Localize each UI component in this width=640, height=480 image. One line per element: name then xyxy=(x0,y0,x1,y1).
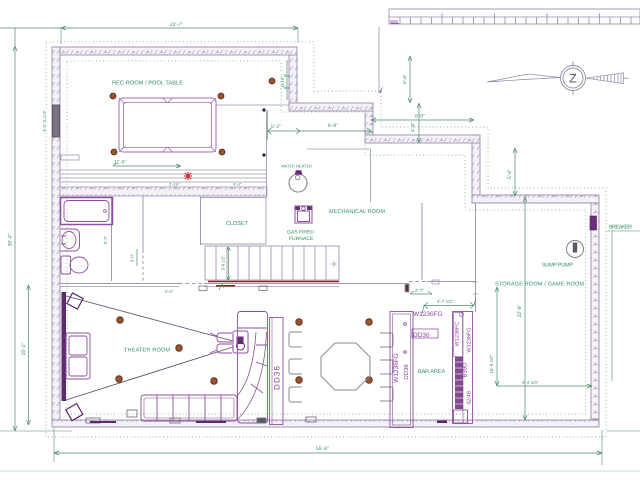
bar counter west xyxy=(390,312,413,428)
projection cone line upper xyxy=(66,296,233,341)
outlet box under stairs 2 xyxy=(259,286,267,291)
svg-text:W1236FG: W1236FG xyxy=(467,327,473,352)
svg-text:15'-2": 15'-2" xyxy=(21,342,27,355)
scale bar left label ticks xyxy=(391,20,400,24)
wall continues xyxy=(204,283,409,285)
svg-text:5'-2": 5'-2" xyxy=(271,124,281,130)
sump pump xyxy=(567,241,584,258)
bar hatch lines xyxy=(455,362,463,404)
bar stools right column xyxy=(380,333,393,401)
dim 3'-0" bath xyxy=(136,249,138,266)
svg-text:36'-0": 36'-0" xyxy=(8,233,14,246)
hall door dashed xyxy=(142,250,144,281)
gas fired furnace xyxy=(295,206,312,223)
dim 6'-6" vertical at step1 xyxy=(409,56,411,103)
svg-text:Tele: Tele xyxy=(283,74,290,78)
support post rec3 xyxy=(111,149,117,155)
dim 4'-6" vertical at step2 xyxy=(418,103,420,143)
svg-text:FURNACE: FURNACE xyxy=(289,236,314,242)
svg-text:6'-8": 6'-8" xyxy=(328,123,338,129)
svg-text:Z: Z xyxy=(569,72,577,86)
support post near rec right wall xyxy=(269,78,275,84)
svg-text:55'-8": 55'-8" xyxy=(316,446,329,452)
speaker bottom-left xyxy=(66,404,83,421)
wall stub at bar top xyxy=(432,280,439,284)
wall: left exterior xyxy=(52,47,60,427)
dim line top 22'-7" xyxy=(0,27,298,29)
wall to storage xyxy=(427,281,475,283)
octagon poker table xyxy=(321,343,370,390)
svg-text:4'-6": 4'-6" xyxy=(411,122,417,132)
stair plus mark xyxy=(331,261,337,267)
svg-text:MECHANICAL ROOM: MECHANICAL ROOM xyxy=(329,209,385,215)
storage wall stub below door xyxy=(475,294,477,312)
dim 22'-9" storage xyxy=(524,197,526,420)
baseboard segment dark 3 xyxy=(437,421,447,424)
svg-text:DD36: DD36 xyxy=(403,364,410,380)
bar cabinet labels xyxy=(393,311,473,405)
toilet xyxy=(61,256,88,274)
theater north wall xyxy=(60,283,179,285)
baseboard segment dark 2 xyxy=(196,421,226,423)
tele marks near rec wall xyxy=(283,74,290,90)
closet box xyxy=(201,198,267,245)
step2 inner face extension line xyxy=(307,148,371,150)
interior partitions xyxy=(60,105,478,312)
support post rec1 xyxy=(110,78,275,155)
wall: step2 horizontal xyxy=(365,135,480,143)
svg-text:SUMP PUMP: SUMP PUMP xyxy=(542,263,573,269)
svg-text:5'-0": 5'-0" xyxy=(165,289,174,294)
svg-text:5'-6": 5'-6" xyxy=(507,169,513,179)
svg-text:STORAGE ROOM / GAME ROOM: STORAGE ROOM / GAME ROOM xyxy=(495,282,584,288)
bar dark hatched cabinet band xyxy=(455,357,463,409)
svg-text:4'-7 1/2": 4'-7 1/2" xyxy=(437,299,454,304)
beam band lines under rec room xyxy=(60,169,267,171)
curved sectional couch horizontal run xyxy=(141,395,237,421)
dim 6'-0" horizontal step2 xyxy=(371,119,474,121)
octagon chairs left column xyxy=(289,332,302,402)
theater door dashed xyxy=(179,283,204,285)
footing dotted outline (outer) xyxy=(46,42,606,437)
theater posts xyxy=(116,317,372,384)
svg-text:5'-4 1/4": 5'-4 1/4" xyxy=(522,380,539,385)
mech/storage divider xyxy=(421,203,423,280)
wall: right exterior xyxy=(591,203,599,419)
svg-text:3'-0" X 4'-0": 3'-0" X 4'-0" xyxy=(42,110,47,132)
outlet box under stairs 1 xyxy=(199,286,207,291)
breaker leader lines xyxy=(607,230,640,232)
faint bottom border line xyxy=(0,470,640,472)
svg-text:3'-8 1/2": 3'-8 1/2" xyxy=(221,255,226,271)
scale-bar drop line xyxy=(378,27,380,93)
footing extension line bottom-right xyxy=(607,430,640,432)
svg-text:11'-5": 11'-5" xyxy=(114,160,127,166)
svg-text:42/48: 42/48 xyxy=(467,391,473,405)
hall partition xyxy=(142,196,144,250)
wall: step2-3 connector vertical xyxy=(472,143,480,195)
egress window on left wall xyxy=(53,105,60,137)
storage door jamb xyxy=(473,282,478,294)
stair treads xyxy=(216,246,326,280)
svg-text:WATER HEATER: WATER HEATER xyxy=(281,164,312,169)
vanity sink xyxy=(61,229,80,251)
svg-text:B39D: B39D xyxy=(462,362,469,378)
svg-text:REC ROOM / POOL TABLE: REC ROOM / POOL TABLE xyxy=(112,80,183,87)
dim line bottom 55'-8" xyxy=(54,452,602,454)
pool table to wall line xyxy=(216,104,289,106)
svg-text:W1236FC: W1236FC xyxy=(455,322,461,347)
storage room west wall xyxy=(475,203,477,294)
water heater xyxy=(289,171,307,193)
wall: step1-2 connector vertical xyxy=(365,111,373,135)
sofa against left wall xyxy=(66,333,90,379)
dim line left 36'-0" xyxy=(14,28,16,431)
recliner with projector xyxy=(210,331,248,353)
interior dotted guide (inner) xyxy=(67,61,586,414)
needle west xyxy=(487,74,561,82)
wall: bottom exterior xyxy=(52,420,599,427)
svg-text:W1236FG: W1236FG xyxy=(393,353,400,383)
dim line left 15'-2" xyxy=(28,285,30,425)
svg-text:BREAKER: BREAKER xyxy=(609,225,632,231)
mech/closet partition xyxy=(266,111,268,197)
svg-text:2'-7": 2'-7" xyxy=(415,288,424,293)
svg-text:W1236FG: W1236FG xyxy=(413,311,443,318)
stair nosing red line xyxy=(208,281,339,283)
curved sectional couch corner+vertical run xyxy=(237,312,268,424)
wall: step1 horizontal xyxy=(289,103,373,111)
stair outline xyxy=(205,246,339,280)
wall: rec room right exterior xyxy=(289,55,297,103)
rec right wall dim 16'10" xyxy=(286,60,288,100)
bathtub xyxy=(61,198,113,225)
dimension texts xyxy=(8,22,539,452)
dim 6'-8" xyxy=(300,130,371,132)
svg-text:22'-7": 22'-7" xyxy=(170,22,183,28)
svg-text:CLOSET: CLOSET xyxy=(226,221,249,227)
closet left wall xyxy=(200,196,202,245)
dim 5'-2" xyxy=(268,130,301,132)
svg-text:THEATER ROOM: THEATER ROOM xyxy=(124,348,170,354)
footing extension line bottom-left xyxy=(0,430,72,432)
svg-text:9'-2": 9'-2" xyxy=(103,235,108,244)
support post rec4 xyxy=(219,149,225,155)
dark mark under stairs xyxy=(216,285,235,287)
svg-text:2'-10": 2'-10" xyxy=(169,182,180,187)
svg-text:DD36: DD36 xyxy=(273,365,282,390)
bathroom east wall xyxy=(111,196,113,281)
shelf under window xyxy=(61,155,79,160)
needle east striped xyxy=(586,73,624,84)
baseboard segment dark xyxy=(90,421,116,423)
dim 16'-9 1/2" xyxy=(496,287,498,386)
svg-text:G: G xyxy=(459,312,466,317)
wall band: rec room south wall xyxy=(60,187,267,196)
walls group xyxy=(52,47,599,427)
dark door jamb at bar wall xyxy=(405,284,409,292)
pool table xyxy=(119,98,216,152)
svg-text:5'-0": 5'-0" xyxy=(233,182,242,187)
black diamond node 1 xyxy=(262,108,266,112)
dim line 11'-5" xyxy=(113,165,181,167)
svg-text:GAS FIRED: GAS FIRED xyxy=(287,230,314,236)
svg-text:3'-0": 3'-0" xyxy=(130,253,135,262)
DD36 media cabinet xyxy=(270,318,284,425)
projection screen xyxy=(62,292,67,401)
scale-bar drop arrow xyxy=(379,86,383,93)
bar counter east xyxy=(453,312,473,424)
wall: top exterior xyxy=(52,47,297,55)
svg-text:22'-9": 22'-9" xyxy=(517,304,523,317)
speaker top-left xyxy=(67,293,83,309)
support post rec2 xyxy=(218,93,224,99)
corridor door dashed xyxy=(409,281,427,283)
dim 5'-6" vertical at step3 xyxy=(514,148,516,196)
dim 5'-4 1/4" xyxy=(497,385,592,387)
theater door tick xyxy=(219,284,224,290)
breaker panel on wall xyxy=(590,216,597,230)
red ceiling symbol xyxy=(184,172,192,180)
svg-text:6'-6": 6'-6" xyxy=(403,74,409,84)
floor outlet boxes along theater south wall xyxy=(86,410,316,423)
svg-text:Tele: Tele xyxy=(283,86,290,90)
dim 2'-7" xyxy=(410,293,432,295)
black diamond node 2 xyxy=(262,153,266,157)
svg-text:16'-9 1/2": 16'-9 1/2" xyxy=(489,354,494,373)
dim 3'-8 1/2" stairs xyxy=(228,247,230,280)
svg-text:BAR AREA: BAR AREA xyxy=(418,369,445,375)
projection cone line lower xyxy=(66,347,233,400)
svg-text:6'-0": 6'-0" xyxy=(415,114,425,120)
wall: step3 horizontal xyxy=(472,195,599,203)
dim 4'-7 1/2" xyxy=(424,305,474,307)
stairs xyxy=(205,246,339,280)
